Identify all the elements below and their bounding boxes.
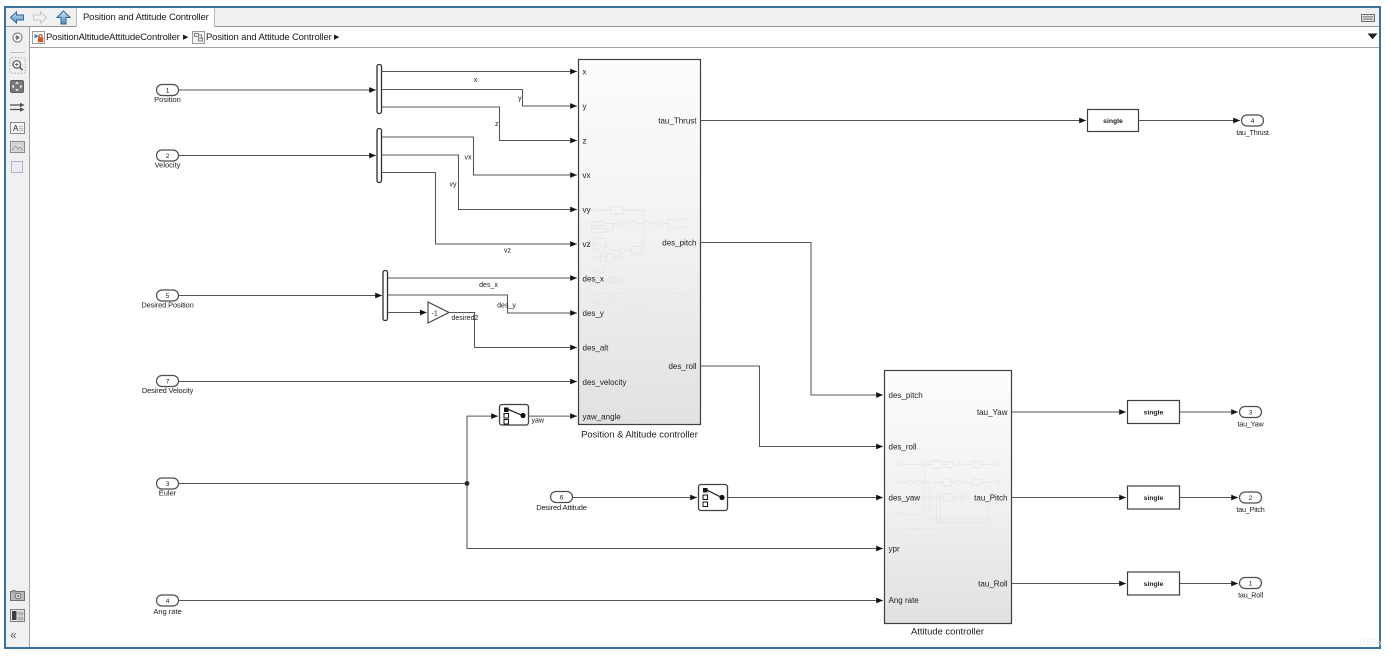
sidebar icon: annotation xyxy=(10,122,25,134)
wire U1.tau_Thrust to B1 xyxy=(701,120,1086,122)
svg-text:4: 4 xyxy=(166,598,170,605)
outport 1 tau_Roll xyxy=(1238,578,1263,600)
svg-text:tau_Pitch: tau_Pitch xyxy=(1236,505,1264,514)
wire Ang rate to U2.Ang rate xyxy=(179,600,883,602)
U2 output port label tau_Pitch xyxy=(974,494,1007,503)
svg-text:single: single xyxy=(1144,581,1164,588)
signal label x xyxy=(474,77,478,84)
wire U2.tau_Pitch to B3 xyxy=(1012,497,1126,499)
svg-text:Euler: Euler xyxy=(159,489,177,498)
U1 output port label des_pitch xyxy=(662,239,696,248)
wire D1.1 to U1.x xyxy=(382,71,577,73)
sidebar icon: collapse chevrons xyxy=(10,628,26,642)
sidebar icon: double arrows xyxy=(9,102,26,113)
svg-text:des_pitch: des_pitch xyxy=(889,391,923,400)
wire U1.des_roll to U2.des_roll xyxy=(701,366,883,447)
svg-text:ypr: ypr xyxy=(889,545,900,554)
wire U1.des_pitch to U2.des_pitch xyxy=(701,243,883,396)
sidebar separator xyxy=(10,52,25,53)
U1 output port label des_roll xyxy=(668,362,696,371)
sidebar icon: viewmarks xyxy=(10,609,25,622)
svg-text:Desired Velocity: Desired Velocity xyxy=(142,386,194,395)
U2 output port label tau_Yaw xyxy=(977,408,1008,417)
outport 4 tau_Thrust xyxy=(1236,115,1269,137)
svg-text:des_velocity: des_velocity xyxy=(583,378,627,387)
U2 output port label tau_Roll xyxy=(978,580,1008,589)
svg-text:des_pitch: des_pitch xyxy=(662,239,696,248)
inport 7 Desired Velocity xyxy=(142,376,194,396)
forward arrow icon xyxy=(32,11,48,24)
svg-text:tau_Roll: tau_Roll xyxy=(978,580,1008,589)
signal label vy xyxy=(450,182,458,189)
subsystem U1 Position & Altitude controller xyxy=(579,60,701,425)
wire SW1 to U1.yaw_angle xyxy=(529,415,577,417)
demux D1 xyxy=(377,65,382,114)
tab title text xyxy=(83,8,218,27)
svg-text:vx: vx xyxy=(583,171,591,180)
svg-text:single: single xyxy=(1103,118,1123,125)
svg-text:Attitude controller: Attitude controller xyxy=(911,626,984,637)
svg-text:y: y xyxy=(518,96,522,103)
svg-text:des_roll: des_roll xyxy=(668,362,696,371)
svg-text:tau_Roll: tau_Roll xyxy=(1238,591,1263,600)
breadcrumb row background xyxy=(30,27,1379,48)
svg-text:5: 5 xyxy=(166,293,170,300)
svg-text:tau_Thrust: tau_Thrust xyxy=(1236,128,1269,137)
signal label des_x xyxy=(479,282,498,289)
svg-text:3: 3 xyxy=(166,481,170,488)
inport 1 Position xyxy=(154,85,181,105)
breadcrumb caret 2 xyxy=(334,27,339,48)
svg-text:y: y xyxy=(583,102,587,111)
wire G1 to U1.des_alt xyxy=(449,313,577,348)
U1 input port label des_x xyxy=(583,275,604,284)
U2 input port label des_pitch xyxy=(889,391,923,400)
svg-text:single: single xyxy=(1144,495,1164,502)
wire D2.3 to U1.vz xyxy=(382,173,577,245)
wire Desired Velocity to U1.des_velocity xyxy=(179,381,577,383)
wire D1.3 to U1.z xyxy=(382,107,577,141)
signal label y xyxy=(518,96,522,103)
U1 label xyxy=(581,429,698,440)
sidebar icon: zoom xyxy=(9,57,26,74)
breadcrumb dropdown caret right xyxy=(1367,33,1378,40)
inport 5 Desired Position xyxy=(141,290,193,310)
up arrow icon xyxy=(56,10,71,25)
U2 input port label des_roll xyxy=(889,443,917,452)
U1 input port label z xyxy=(583,137,587,146)
faint zoom watermark xyxy=(1358,637,1381,647)
svg-text:yaw: yaw xyxy=(532,418,545,425)
svg-text:Velocity: Velocity xyxy=(155,161,181,170)
inport 2 Velocity xyxy=(155,150,181,170)
wire D2.1 to U1.vx xyxy=(382,137,577,175)
outport 3 tau_Yaw xyxy=(1237,407,1264,429)
U1 input port label des_alt xyxy=(583,344,610,353)
svg-text:vy: vy xyxy=(450,182,458,189)
U1 input port label vz xyxy=(583,240,591,249)
ghost preview inside U1 xyxy=(592,207,689,311)
document tab xyxy=(76,8,215,27)
svg-text:Ang rate: Ang rate xyxy=(889,596,920,605)
svg-text:x: x xyxy=(474,77,478,84)
wire D1.2 to U1.y xyxy=(382,90,577,107)
data type conversion B3 single (tau_Pitch) xyxy=(1128,486,1180,509)
svg-text:tau_Yaw: tau_Yaw xyxy=(1237,420,1264,429)
svg-text:x: x xyxy=(583,68,587,77)
wire D3.2 to U1.des_y xyxy=(388,295,577,313)
wire D3.1 to U1.des_x xyxy=(388,277,577,279)
U2 input port label Ang rate xyxy=(889,596,920,605)
toolbar row background xyxy=(6,8,1379,27)
signal label z xyxy=(495,121,499,128)
svg-text:tau_Thrust: tau_Thrust xyxy=(658,117,697,126)
svg-text:des_alt: des_alt xyxy=(583,344,610,353)
svg-text:4: 4 xyxy=(1251,118,1255,125)
svg-text:1: 1 xyxy=(1249,581,1253,588)
demux D2 xyxy=(377,129,382,183)
data type conversion B1 single (tau_Thrust) xyxy=(1088,110,1139,132)
signal label des_y xyxy=(497,303,516,310)
wire Desired Attitude to SW2 xyxy=(573,497,697,499)
svg-text:vz: vz xyxy=(504,248,512,255)
wire Position to D1 xyxy=(179,89,376,91)
U2 input port label des_yaw xyxy=(889,494,921,503)
breadcrumb subsystem icon xyxy=(192,31,205,44)
sidebar icon: camera xyxy=(10,590,25,601)
wire B4 to outport 1 xyxy=(1180,583,1238,585)
svg-text:vy: vy xyxy=(583,206,591,215)
junction node Euler xyxy=(465,481,470,486)
svg-text:tau_Pitch: tau_Pitch xyxy=(974,494,1007,503)
wire D3.3 to gain G1 xyxy=(388,312,427,314)
U1 input port label vy xyxy=(583,206,591,215)
U2 label xyxy=(911,626,984,637)
svg-text:Desired Attitude: Desired Attitude xyxy=(536,503,587,512)
U1 input port label y xyxy=(583,102,587,111)
svg-text:Position: Position xyxy=(154,95,181,104)
svg-text:Ang rate: Ang rate xyxy=(153,607,181,616)
U1 output port label tau_Thrust xyxy=(658,117,697,126)
signal label vx xyxy=(465,155,473,162)
wire Euler to junction xyxy=(179,483,468,485)
wire B2 to outport 3 xyxy=(1180,411,1238,413)
wire D2.2 to U1.vy xyxy=(382,155,577,210)
svg-text:2: 2 xyxy=(1249,495,1253,502)
svg-text:vz: vz xyxy=(583,240,591,249)
data type conversion B2 single (tau_Yaw) xyxy=(1128,401,1180,424)
demux D3 xyxy=(383,271,388,321)
manual switch SW2 xyxy=(699,485,728,511)
breadcrumb text 2 xyxy=(206,27,332,48)
subsystem U2 Attitude controller xyxy=(885,371,1012,624)
wire SW2 to U2.des_yaw xyxy=(728,497,883,499)
inport 3 Euler xyxy=(157,478,179,498)
svg-text:Position & Altitude controller: Position & Altitude controller xyxy=(581,429,698,440)
svg-text:yaw_angle: yaw_angle xyxy=(583,413,622,422)
U1 input port label vx xyxy=(583,171,591,180)
svg-text:des_x: des_x xyxy=(583,275,604,284)
U1 input port label des_velocity xyxy=(583,378,627,387)
U2 input port label ypr xyxy=(889,545,900,554)
svg-text:des_x: des_x xyxy=(479,282,498,289)
sidebar icon: square xyxy=(11,161,23,173)
gain G1 -1 desired2 xyxy=(428,302,478,323)
signal label vz xyxy=(504,248,512,255)
svg-text:3: 3 xyxy=(1249,410,1253,417)
wire B1 to outport 4 xyxy=(1139,120,1240,122)
svg-text:vx: vx xyxy=(465,155,473,162)
svg-text:1: 1 xyxy=(166,88,170,95)
sidebar icon: fit to view xyxy=(10,80,24,93)
inport 4 Ang rate xyxy=(153,595,181,616)
svg-text:z: z xyxy=(495,121,499,128)
breadcrumb caret 1 xyxy=(183,27,188,48)
manual switch SW1 yaw xyxy=(500,405,545,426)
U1 input port label des_y xyxy=(583,309,604,318)
U1 input port label yaw_angle xyxy=(583,413,622,422)
breadcrumb model icon xyxy=(32,31,45,44)
wire junction up to SW1 xyxy=(467,416,498,483)
svg-text:tau_Yaw: tau_Yaw xyxy=(977,408,1008,417)
wire junction down to U2.ypr xyxy=(467,484,883,549)
sidebar icon: image xyxy=(10,141,25,153)
wire B3 to outport 2 xyxy=(1180,497,1238,499)
svg-text:single: single xyxy=(1144,410,1164,417)
svg-text:des_roll: des_roll xyxy=(889,443,917,452)
U1 input port label x xyxy=(583,68,587,77)
svg-text:des_yaw: des_yaw xyxy=(889,494,921,503)
breadcrumb text 1 xyxy=(46,27,180,48)
ghost preview inside U2 xyxy=(897,461,1000,534)
svg-text:7: 7 xyxy=(166,379,170,386)
left sidebar background xyxy=(6,27,30,647)
svg-text:6: 6 xyxy=(560,495,564,502)
outport 2 tau_Pitch xyxy=(1236,492,1264,514)
keyboard icon top right xyxy=(1361,14,1375,22)
sidebar icon: explorer bar toggle xyxy=(12,32,23,43)
wire U2.tau_Roll to B4 xyxy=(1012,583,1126,585)
wire U2.tau_Yaw to B2 xyxy=(1012,411,1126,413)
svg-text:Desired Position: Desired Position xyxy=(141,301,193,310)
svg-text:des_y: des_y xyxy=(583,309,604,318)
svg-text:z: z xyxy=(583,137,587,146)
wire Desired Position to D3 xyxy=(179,295,382,297)
back arrow icon xyxy=(9,11,25,24)
wire Velocity to D2 xyxy=(179,155,376,157)
svg-text:des_y: des_y xyxy=(497,303,516,310)
inport 6 Desired Attitude xyxy=(536,492,587,513)
svg-text:-1: -1 xyxy=(432,311,438,318)
data type conversion B4 single (tau_Roll) xyxy=(1128,572,1180,595)
svg-text:2: 2 xyxy=(166,153,170,160)
